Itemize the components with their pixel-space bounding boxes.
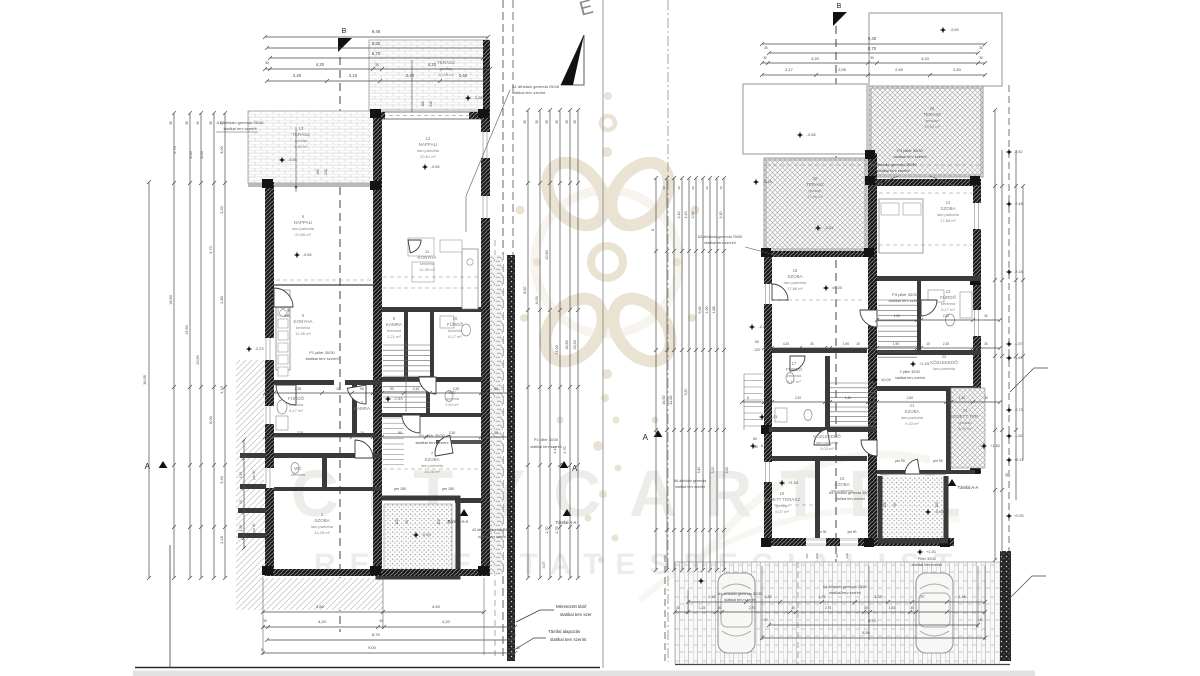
- svg-text:4,10: 4,10: [220, 386, 224, 393]
- svg-text:4,80: 4,80: [316, 604, 325, 609]
- svg-text:statikai terv szerint: statikai terv szerint: [893, 154, 927, 159]
- svg-text:60: 60: [753, 437, 757, 441]
- svg-text:15: 15: [840, 476, 845, 481]
- svg-text:-1,21: -1,21: [768, 414, 778, 419]
- svg-text:10,90: 10,90: [545, 250, 549, 260]
- svg-text:1,15: 1,15: [699, 606, 705, 610]
- svg-text:3,10: 3,10: [677, 212, 681, 219]
- svg-text:6,17 m²: 6,17 m²: [941, 307, 955, 312]
- svg-text:greslap: greslap: [958, 420, 972, 425]
- svg-text:13: 13: [299, 126, 304, 131]
- svg-text:17,88 m²: 17,88 m²: [940, 218, 956, 223]
- svg-text:6,17 m²: 6,17 m²: [787, 379, 801, 384]
- svg-text:30: 30: [791, 606, 795, 610]
- svg-text:30: 30: [535, 120, 539, 124]
- svg-text:24: 24: [963, 408, 968, 413]
- svg-text:8,70: 8,70: [372, 51, 381, 56]
- svg-text:19,20: 19,20: [573, 340, 577, 350]
- svg-text:18,90: 18,90: [169, 295, 173, 305]
- svg-text:A1 áthidaló gerenda 25/48: A1 áthidaló gerenda 25/48: [512, 84, 560, 89]
- svg-text:8,87: 8,87: [523, 286, 527, 293]
- svg-text:2,75: 2,75: [749, 606, 755, 610]
- svg-text:107: 107: [805, 553, 809, 558]
- svg-text:9,00: 9,00: [368, 645, 377, 650]
- svg-text:FÜRDŐ: FÜRDŐ: [447, 321, 463, 327]
- svg-text:2,60: 2,60: [907, 396, 913, 400]
- svg-text:lam.parketta: lam.parketta: [421, 463, 444, 468]
- svg-text:30: 30: [764, 618, 768, 622]
- svg-text:8,70: 8,70: [868, 46, 877, 51]
- svg-text:120: 120: [935, 502, 939, 508]
- svg-text:17,88 m²: 17,88 m²: [787, 286, 803, 291]
- svg-text:240: 240: [284, 314, 290, 318]
- svg-text:14,00: 14,00: [555, 345, 559, 355]
- svg-text:30: 30: [705, 186, 709, 190]
- svg-text:30: 30: [984, 314, 988, 318]
- svg-text:18,90: 18,90: [565, 340, 569, 350]
- svg-text:2,05: 2,05: [838, 67, 847, 72]
- svg-text:16: 16: [780, 491, 785, 496]
- svg-text:kerámia: kerámia: [291, 472, 306, 477]
- svg-text:4,20: 4,20: [783, 342, 789, 346]
- svg-text:120: 120: [883, 502, 887, 508]
- svg-text:10: 10: [336, 387, 340, 391]
- svg-text:SZOBA: SZOBA: [787, 274, 802, 279]
- svg-text:30: 30: [717, 606, 721, 610]
- svg-text:30: 30: [512, 633, 516, 637]
- svg-text:30: 30: [545, 120, 549, 124]
- svg-text:4,88: 4,88: [712, 307, 716, 314]
- svg-text:KÖZLEKEDŐ: KÖZLEKEDŐ: [813, 433, 841, 439]
- svg-text:10,05 m²: 10,05 m²: [438, 72, 454, 77]
- svg-text:-3,08: -3,08: [806, 132, 816, 137]
- svg-text:pm 150: pm 150: [394, 487, 406, 491]
- svg-text:30: 30: [676, 606, 680, 610]
- svg-text:4,20: 4,20: [318, 619, 327, 624]
- svg-text:statikai terv szerint: statikai terv szerint: [829, 591, 861, 595]
- svg-text:pm 90: pm 90: [933, 459, 943, 463]
- svg-text:P3 pillér 30/30: P3 pillér 30/30: [897, 148, 923, 153]
- svg-text:A2 áthidaló gerenda 25/48: A2 áthidaló gerenda 25/48: [472, 528, 512, 532]
- svg-text:2,10: 2,10: [349, 73, 358, 78]
- svg-text:greslap: greslap: [808, 188, 822, 193]
- svg-text:statikai terv szerint: statikai terv szerint: [912, 563, 942, 567]
- svg-text:90: 90: [398, 431, 402, 435]
- svg-text:3,10: 3,10: [719, 212, 723, 219]
- svg-text:30: 30: [486, 61, 490, 65]
- svg-text:lam.parketta: lam.parketta: [292, 226, 315, 231]
- svg-text:30: 30: [523, 120, 527, 124]
- svg-text:SZOBA: SZOBA: [834, 482, 849, 487]
- svg-text:-1,87: -1,87: [1014, 356, 1023, 360]
- svg-text:A: A: [572, 464, 578, 473]
- svg-text:16,50: 16,50: [662, 396, 666, 405]
- svg-text:-0,53: -0,53: [759, 443, 769, 448]
- svg-text:30: 30: [662, 186, 666, 190]
- svg-text:kerámia: kerámia: [296, 325, 311, 330]
- svg-text:4,20: 4,20: [316, 62, 325, 67]
- svg-text:1,50: 1,50: [239, 525, 243, 531]
- svg-text:-0,73: -0,73: [1014, 408, 1023, 412]
- svg-text:kerámia: kerámia: [420, 261, 435, 266]
- svg-text:2,18: 2,18: [220, 536, 224, 543]
- svg-text:FÜRDŐ: FÜRDŐ: [940, 294, 956, 300]
- svg-text:30: 30: [979, 46, 983, 50]
- svg-text:statikai terv szerint: statikai terv szerint: [876, 168, 910, 173]
- svg-text:statikai terv szer: statikai terv szer: [560, 612, 592, 617]
- svg-text:2,92: 2,92: [691, 212, 695, 219]
- svg-text:12,39 m²: 12,39 m²: [419, 267, 435, 272]
- svg-text:pm 90: pm 90: [848, 530, 857, 534]
- svg-text:9,30: 9,30: [698, 307, 702, 314]
- svg-text:SZOBA: SZOBA: [314, 518, 329, 523]
- svg-text:TERASZ: TERASZ: [923, 112, 941, 117]
- svg-text:2,40: 2,40: [459, 73, 468, 78]
- svg-text:KAMRA: KAMRA: [354, 406, 370, 411]
- svg-text:A3 áthidaló gerenda 25/50: A3 áthidaló gerenda 25/50: [698, 235, 743, 239]
- svg-text:+1,53: +1,53: [788, 480, 799, 485]
- svg-text:400: 400: [421, 101, 425, 107]
- svg-text:14,28 m²: 14,28 m²: [314, 530, 330, 535]
- svg-text:30: 30: [220, 121, 224, 125]
- svg-text:-1,53: -1,53: [393, 396, 403, 401]
- svg-text:30: 30: [185, 121, 189, 125]
- svg-text:230: 230: [815, 553, 819, 558]
- svg-text:FÜRDŐ: FÜRDŐ: [786, 366, 802, 372]
- svg-text:90: 90: [835, 554, 839, 558]
- svg-text:pm 90: pm 90: [818, 530, 827, 534]
- svg-text:2,70: 2,70: [545, 527, 549, 534]
- svg-text:+0,11: +0,11: [1014, 458, 1023, 462]
- svg-text:120: 120: [437, 519, 441, 525]
- svg-text:20,61 m²: 20,61 m²: [420, 154, 436, 159]
- svg-text:90: 90: [239, 500, 243, 504]
- svg-text:120: 120: [754, 348, 760, 352]
- svg-text:1,40: 1,40: [845, 396, 851, 400]
- svg-text:2,20: 2,20: [297, 431, 304, 435]
- svg-text:90: 90: [287, 308, 291, 312]
- svg-text:B: B: [837, 3, 842, 10]
- svg-text:-1,62: -1,62: [1014, 434, 1023, 438]
- svg-text:30: 30: [573, 120, 577, 124]
- svg-text:kerámia: kerámia: [387, 328, 402, 333]
- svg-text:2,42: 2,42: [708, 595, 715, 599]
- svg-text:2,40: 2,40: [953, 67, 962, 72]
- svg-text:8,70: 8,70: [372, 632, 381, 637]
- svg-text:lam.parketta: lam.parketta: [937, 212, 960, 217]
- svg-text:B: B: [342, 28, 347, 35]
- svg-text:10: 10: [856, 342, 860, 346]
- svg-text:KONYHA: KONYHA: [417, 255, 436, 260]
- svg-text:4,20: 4,20: [811, 56, 820, 61]
- svg-text:statikai terv szerint: statikai terv szerint: [550, 637, 587, 642]
- svg-text:30: 30: [691, 186, 695, 190]
- svg-text:17,96 m²: 17,96 m²: [807, 194, 823, 199]
- svg-text:statikai terv szerint: statikai terv szerint: [895, 376, 925, 380]
- svg-text:statikai terv szerint: statikai terv szerint: [530, 445, 562, 449]
- svg-text:A3 áthidaló gerenda 25/50: A3 áthidaló gerenda 25/50: [870, 162, 918, 167]
- svg-text:P3 pillér 30/30: P3 pillér 30/30: [892, 292, 918, 297]
- svg-text:26: 26: [930, 106, 935, 111]
- svg-text:-1,57: -1,57: [1014, 342, 1023, 346]
- svg-text:A4 áthidaló gerenda 30/35: A4 áthidaló gerenda 30/35: [718, 592, 763, 596]
- svg-text:+0,95: +0,95: [1014, 514, 1024, 518]
- svg-text:2,49: 2,49: [895, 67, 904, 72]
- svg-text:1,35: 1,35: [764, 595, 771, 599]
- svg-text:14,80: 14,80: [669, 396, 673, 405]
- svg-text:90: 90: [360, 387, 364, 391]
- svg-text:12: 12: [426, 136, 431, 141]
- svg-text:30: 30: [979, 56, 983, 60]
- svg-text:2,10: 2,10: [413, 387, 420, 391]
- svg-text:A4 áthidaló gerenda 25/50: A4 áthidaló gerenda 25/50: [823, 585, 868, 589]
- svg-text:±0,00: ±0,00: [881, 377, 892, 382]
- svg-text:4,50: 4,50: [432, 604, 441, 609]
- svg-text:,97: ,97: [919, 595, 924, 599]
- svg-text:5,03 m²: 5,03 m²: [820, 446, 834, 451]
- svg-text:SZOBA: SZOBA: [940, 206, 955, 211]
- svg-text:11: 11: [425, 249, 430, 254]
- svg-text:greslap: greslap: [775, 503, 789, 508]
- svg-text:30: 30: [719, 186, 723, 190]
- svg-text:2,20: 2,20: [795, 396, 801, 400]
- svg-text:-3,08: -3,08: [473, 95, 483, 100]
- svg-text:3,20: 3,20: [220, 206, 224, 213]
- svg-text:10: 10: [453, 316, 458, 321]
- svg-text:10: 10: [360, 431, 364, 435]
- svg-text:240: 240: [429, 101, 433, 107]
- svg-text:FEDETT TERASZ: FEDETT TERASZ: [764, 497, 801, 502]
- svg-text:lam.parketta: lam.parketta: [784, 280, 807, 285]
- svg-text:+1,52: +1,52: [990, 443, 1001, 448]
- svg-text:statikai terv szerint: statikai terv szerint: [888, 298, 922, 303]
- svg-text:9,20: 9,20: [684, 389, 688, 396]
- svg-text:6,17 m²: 6,17 m²: [289, 408, 303, 413]
- svg-text:A: A: [643, 433, 649, 442]
- svg-text:2,40: 2,40: [406, 73, 415, 78]
- svg-text:22: 22: [942, 354, 947, 359]
- svg-text:6,17 m²: 6,17 m²: [448, 334, 462, 339]
- svg-text:18: 18: [793, 268, 798, 273]
- svg-text:90: 90: [447, 520, 451, 524]
- svg-text:KONYHA: KONYHA: [293, 319, 312, 324]
- svg-text:pm 90: pm 90: [895, 459, 905, 463]
- svg-text:-2,48: -2,48: [1014, 202, 1023, 206]
- svg-text:3,00: 3,00: [189, 151, 193, 158]
- svg-text:23: 23: [946, 289, 951, 294]
- svg-text:P1 pillér 30/30: P1 pillér 30/30: [309, 350, 335, 355]
- svg-text:A4 áthidaló gerenda 30/35: A4 áthidaló gerenda 30/35: [829, 491, 871, 495]
- svg-text:3,40: 3,40: [697, 467, 701, 474]
- svg-text:1,53: 1,53: [889, 606, 895, 610]
- svg-text:FEDETT TER.: FEDETT TER.: [951, 414, 980, 419]
- svg-text:-3,06: -3,06: [302, 252, 312, 257]
- svg-text:pm 90: pm 90: [252, 470, 256, 479]
- svg-text:Támfal A-A: Támfal A-A: [556, 520, 577, 525]
- svg-text:2,40: 2,40: [293, 73, 302, 78]
- svg-text:4,42: 4,42: [553, 447, 557, 454]
- svg-text:14: 14: [946, 200, 951, 205]
- svg-text:+1,51: +1,51: [926, 549, 937, 554]
- svg-text:8,00: 8,00: [209, 416, 213, 423]
- svg-text:statikai terv szerint: statikai terv szerint: [478, 535, 506, 539]
- svg-text:1,90: 1,90: [893, 342, 899, 346]
- svg-text:120: 120: [395, 519, 399, 525]
- svg-text:TERASZ: TERASZ: [806, 182, 824, 187]
- svg-text:Pillér 30/30: Pillér 30/30: [918, 557, 936, 561]
- svg-text:19,50: 19,50: [185, 325, 189, 335]
- svg-text:13,50 m²: 13,50 m²: [924, 124, 940, 129]
- svg-text:2,80: 2,80: [220, 296, 224, 303]
- svg-text:90: 90: [405, 520, 409, 524]
- svg-text:30: 30: [555, 120, 559, 124]
- svg-text:38: 38: [494, 431, 498, 435]
- svg-text:30: 30: [764, 46, 768, 50]
- svg-text:-3,08: -3,08: [949, 27, 959, 32]
- svg-text:230: 230: [752, 445, 758, 449]
- svg-text:lam.parketta: lam.parketta: [933, 366, 956, 371]
- svg-text:lam.parketta: lam.parketta: [417, 148, 440, 153]
- svg-text:statikai terv szerint: statikai terv szerint: [305, 356, 339, 361]
- svg-text:8: 8: [651, 229, 655, 231]
- svg-text:-2,23: -2,23: [758, 324, 768, 329]
- svg-text:statikai terv szerint: statikai terv szerint: [223, 126, 257, 131]
- svg-text:2 pillér 30/30: 2 pillér 30/30: [900, 370, 921, 374]
- svg-text:30: 30: [375, 63, 379, 67]
- svg-text:20,85 m²: 20,85 m²: [295, 232, 311, 237]
- svg-text:2,75: 2,75: [825, 606, 831, 610]
- svg-text:1,90: 1,90: [894, 314, 900, 318]
- svg-text:1,50: 1,50: [239, 472, 243, 478]
- svg-text:4,70: 4,70: [209, 246, 213, 253]
- svg-text:-2,23: -2,23: [254, 346, 264, 351]
- svg-text:±0,00: ±0,00: [832, 285, 843, 290]
- svg-text:-3,06: -3,06: [430, 164, 440, 169]
- svg-text:30: 30: [946, 396, 950, 400]
- svg-text:2,21 m²: 2,21 m²: [387, 334, 401, 339]
- svg-text:TERASZ: TERASZ: [437, 60, 455, 65]
- svg-text:17: 17: [792, 361, 797, 366]
- svg-text:A: A: [145, 462, 151, 471]
- svg-text:20: 20: [813, 176, 818, 181]
- svg-text:8: 8: [261, 648, 263, 652]
- svg-text:30: 30: [379, 619, 383, 623]
- svg-text:pm 150: pm 150: [442, 487, 454, 491]
- svg-text:30: 30: [677, 186, 681, 190]
- svg-text:30: 30: [263, 619, 267, 623]
- svg-text:3,50: 3,50: [725, 467, 729, 474]
- svg-text:statikai terv szerint: statikai terv szerint: [415, 440, 449, 445]
- svg-text:1,76: 1,76: [818, 595, 825, 599]
- svg-text:30: 30: [864, 606, 868, 610]
- svg-text:2,20: 2,20: [453, 387, 460, 391]
- svg-text:lam.parketta: lam.parketta: [311, 524, 334, 529]
- svg-text:30: 30: [763, 56, 767, 60]
- svg-text:KAMRA: KAMRA: [386, 322, 402, 327]
- svg-text:16,65: 16,65: [142, 374, 147, 385]
- svg-text:4,20: 4,20: [428, 62, 437, 67]
- svg-text:5,09 m²: 5,09 m²: [958, 426, 972, 431]
- svg-text:2,64 m²: 2,64 m²: [445, 402, 459, 407]
- svg-text:statikai terv szerint: statikai terv szerint: [835, 497, 865, 501]
- svg-text:3,00: 3,00: [220, 146, 224, 153]
- svg-text:NAPPALI: NAPPALI: [294, 220, 313, 225]
- svg-text:kerámia: kerámia: [445, 396, 460, 401]
- svg-text:30: 30: [766, 396, 770, 400]
- svg-text:30: 30: [984, 342, 988, 346]
- svg-text:+1,53: +1,53: [919, 361, 930, 366]
- svg-text:1,35: 1,35: [874, 595, 881, 599]
- svg-text:8: 8: [747, 396, 749, 400]
- svg-text:lam.parketta: lam.parketta: [816, 440, 839, 445]
- svg-text:30: 30: [169, 121, 173, 125]
- svg-text:3,40: 3,40: [220, 476, 224, 483]
- svg-text:11,96 m²: 11,96 m²: [295, 331, 311, 336]
- svg-text:KÖZLEKEDŐ: KÖZLEKEDŐ: [930, 359, 958, 365]
- svg-text:-2,82: -2,82: [1014, 150, 1023, 154]
- svg-text:SZOBA: SZOBA: [424, 457, 439, 462]
- svg-text:FÜRDŐ: FÜRDŐ: [288, 395, 304, 401]
- svg-text:30: 30: [196, 121, 200, 125]
- svg-text:10: 10: [926, 342, 930, 346]
- svg-text:60: 60: [755, 340, 759, 344]
- svg-text:1,45: 1,45: [958, 595, 965, 599]
- svg-text:9,33 m²: 9,33 m²: [905, 421, 919, 426]
- svg-text:14,28 m²: 14,28 m²: [424, 469, 440, 474]
- svg-text:statikai terv szerint: statikai terv szerint: [724, 598, 756, 602]
- svg-text:9,30: 9,30: [372, 41, 381, 46]
- svg-text:30: 30: [565, 120, 569, 124]
- svg-text:2,20: 2,20: [943, 314, 949, 318]
- svg-text:kerámia: kerámia: [289, 402, 304, 407]
- svg-text:2,20: 2,20: [943, 342, 949, 346]
- svg-text:Támfal alapozás: Támfal alapozás: [548, 629, 581, 634]
- svg-text:30: 30: [979, 618, 983, 622]
- svg-text:A6 áthidaló gerenda: A6 áthidaló gerenda: [674, 479, 706, 483]
- svg-text:-2,18: -2,18: [1014, 270, 1023, 274]
- svg-text:3,00: 3,00: [200, 151, 204, 158]
- svg-text:greslap: greslap: [439, 66, 453, 71]
- svg-text:TERASZ: TERASZ: [292, 132, 310, 137]
- svg-text:P1 pillér 30/30: P1 pillér 30/30: [534, 438, 558, 442]
- svg-text:2,30: 2,30: [449, 431, 456, 435]
- svg-text:9,30: 9,30: [862, 630, 871, 635]
- svg-text:1,10: 1,10: [959, 396, 965, 400]
- svg-text:30: 30: [810, 342, 814, 346]
- svg-text:10: 10: [825, 396, 829, 400]
- svg-text:WC: WC: [294, 466, 302, 471]
- svg-text:lam.parketta: lam.parketta: [901, 415, 924, 420]
- svg-text:30: 30: [870, 396, 874, 400]
- svg-text:90: 90: [390, 387, 394, 391]
- svg-text:greslap: greslap: [925, 118, 939, 123]
- svg-text:9,30: 9,30: [868, 36, 877, 41]
- svg-text:-3,28: -3,28: [762, 179, 772, 184]
- svg-text:pm 90: pm 90: [252, 523, 256, 532]
- svg-text:3,20: 3,20: [711, 467, 715, 474]
- svg-text:2,20: 2,20: [295, 387, 302, 391]
- svg-text:4,00: 4,00: [705, 307, 709, 314]
- svg-text:21: 21: [910, 403, 915, 408]
- svg-text:30: 30: [494, 387, 498, 391]
- svg-text:30: 30: [984, 396, 988, 400]
- svg-text:greslap: greslap: [294, 138, 308, 143]
- svg-text:8,70: 8,70: [868, 618, 877, 623]
- svg-text:kerámia: kerámia: [448, 328, 463, 333]
- svg-text:8,00: 8,00: [535, 296, 539, 303]
- svg-text:statikai terv szerint: statikai terv szerint: [512, 90, 546, 95]
- svg-text:5,07 m²: 5,07 m²: [775, 509, 789, 514]
